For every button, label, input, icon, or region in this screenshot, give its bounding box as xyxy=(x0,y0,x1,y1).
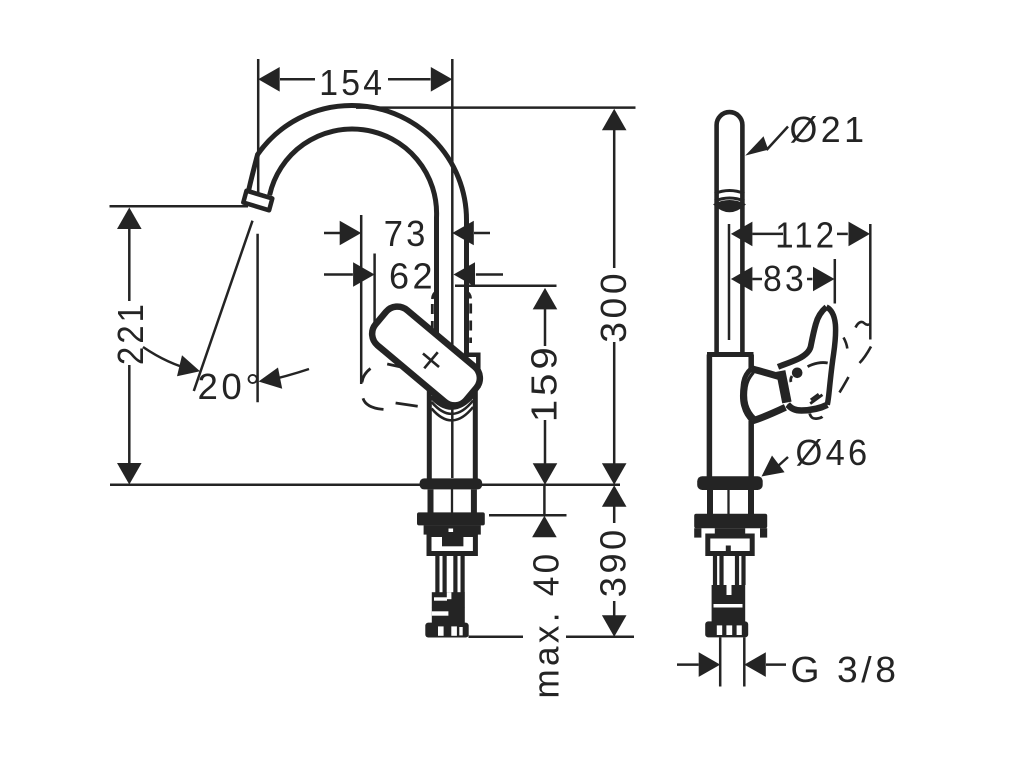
svg-text:Ø21: Ø21 xyxy=(790,109,868,150)
svg-text:62: 62 xyxy=(389,256,436,297)
svg-text:300: 300 xyxy=(593,270,634,343)
svg-text:159: 159 xyxy=(524,343,565,422)
svg-text:83: 83 xyxy=(763,258,807,299)
svg-text:G 3/8: G 3/8 xyxy=(791,649,900,690)
svg-text:73: 73 xyxy=(384,213,429,254)
svg-text:max. 40: max. 40 xyxy=(526,551,567,699)
svg-text:Ø46: Ø46 xyxy=(796,432,871,473)
svg-text:112: 112 xyxy=(775,215,837,256)
svg-text:154: 154 xyxy=(319,62,385,103)
svg-text:390: 390 xyxy=(593,526,634,597)
svg-text:20°: 20° xyxy=(198,366,264,407)
svg-text:221: 221 xyxy=(110,301,151,365)
